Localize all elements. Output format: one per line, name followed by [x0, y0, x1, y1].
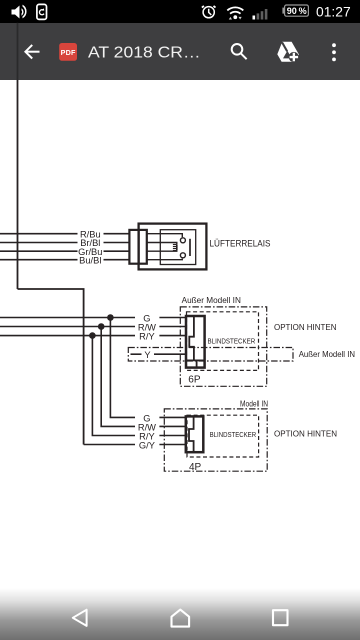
wifi traffic arrows	[229, 17, 242, 20]
dashed box 4P	[187, 415, 259, 457]
wire: vertical trunk over toolbar	[17, 23, 19, 81]
wire G right	[159, 317, 186, 319]
relay wire to contact b	[146, 259, 182, 260]
overflow menu	[332, 43, 336, 61]
svg-text:4P: 4P	[189, 462, 202, 473]
wire branch R/Y down	[92, 336, 135, 436]
connector 6P body	[186, 316, 205, 368]
svg-text:LÜFTERRELAIS: LÜFTERRELAIS	[210, 238, 271, 248]
svg-text:OPTION HINTEN: OPTION HINTEN	[274, 430, 337, 439]
signal bars	[253, 9, 268, 20]
wire Bu/Bl left	[0, 259, 78, 261]
option chain box 4P	[164, 409, 267, 471]
svg-text:G/Y: G/Y	[139, 441, 155, 451]
nav back triangle	[73, 610, 87, 626]
wire Br/Bl right	[104, 242, 130, 244]
relay wire to contact a	[146, 234, 182, 238]
relay wire to coil top	[146, 243, 177, 245]
wire Y left stub	[131, 353, 142, 355]
svg-text:Außer Modell IN: Außer Modell IN	[299, 350, 356, 359]
relay plug connector	[129, 230, 146, 264]
svg-text:Modell IN: Modell IN	[240, 399, 268, 408]
pdf badge	[59, 43, 77, 61]
status bar	[0, 0, 360, 23]
node dot G	[107, 314, 114, 321]
connector 4P body	[186, 416, 204, 452]
svg-text:OPTION HINTEN: OPTION HINTEN	[274, 323, 337, 332]
drive icon	[277, 42, 299, 62]
relay coil	[173, 244, 177, 250]
svg-text:01:27: 01:27	[316, 3, 351, 19]
back arrow	[25, 45, 39, 59]
wire G/Y right (4P)	[159, 444, 185, 446]
wire Y right stub	[154, 353, 186, 355]
wire G right (4P)	[159, 416, 185, 418]
wire R/Bu right	[104, 233, 130, 235]
relay switch blade	[189, 239, 191, 256]
battery outline	[282, 5, 308, 16]
svg-text:AT 2018 CR…: AT 2018 CR…	[88, 44, 201, 61]
relay contact a	[180, 238, 185, 243]
relay outer box	[139, 224, 207, 270]
relay contact b	[180, 253, 185, 258]
node dot R/W	[98, 323, 105, 330]
wire G/Y left (4P)	[84, 444, 135, 446]
wire R/Y right (4P)	[159, 435, 185, 437]
wire: vertical trunk	[17, 80, 19, 289]
wire branch G down	[110, 318, 135, 418]
toolbar	[0, 23, 360, 80]
wire R/W left	[0, 326, 135, 328]
wire: trunk elbow to G/Y	[18, 289, 84, 445]
wire R/W right (4P)	[159, 425, 185, 427]
wire G left	[0, 317, 135, 319]
wifi icon	[227, 7, 243, 13]
svg-text:BLINDSTECKER: BLINDSTECKER	[210, 430, 257, 439]
svg-text:BLINDSTECKER: BLINDSTECKER	[208, 336, 256, 345]
wire Gr/Bu left	[0, 250, 78, 252]
wire R/Bu left	[0, 233, 78, 235]
Y chain box	[128, 348, 293, 362]
dashed box 6P	[187, 312, 259, 371]
wire branch R/W down	[101, 327, 135, 427]
speaker icon	[12, 5, 27, 19]
svg-text:R/Y: R/Y	[139, 332, 155, 342]
relay inner box	[160, 230, 195, 265]
wire Gr/Bu right	[104, 250, 130, 252]
nav recents square	[273, 610, 288, 625]
wire R/W right	[159, 326, 186, 328]
svg-text:PDF: PDF	[61, 48, 76, 57]
option chain box 6P	[180, 307, 266, 386]
alarm clock icon	[202, 6, 216, 18]
relay wire to coil bottom	[146, 250, 177, 253]
svg-text:Y: Y	[144, 350, 150, 360]
search icon	[232, 44, 247, 59]
wire R/Y right	[159, 335, 186, 337]
svg-text:90 %: 90 %	[287, 6, 308, 16]
nav home	[172, 610, 190, 627]
svg-text:6P: 6P	[188, 374, 201, 385]
navigation bar	[0, 588, 360, 640]
wire Bu/Bl right	[104, 259, 130, 261]
wire R/Y left	[0, 335, 135, 337]
svg-text:Außer Modell IN: Außer Modell IN	[182, 296, 242, 305]
rotate-lock icon	[37, 4, 47, 19]
wire Br/Bl left	[0, 242, 78, 244]
svg-text:Bu/Bl: Bu/Bl	[79, 255, 101, 265]
node dot R/Y	[89, 332, 96, 339]
